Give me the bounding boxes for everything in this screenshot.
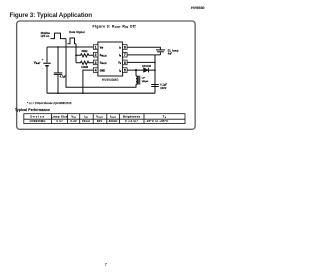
svg-text:GND: GND	[100, 69, 106, 72]
svg-text:+: +	[42, 58, 44, 62]
svg-text:Figure 3: ROUT RIN Off: Figure 3: ROUT RIN Off	[93, 25, 137, 30]
svg-text:L1*: L1*	[142, 78, 146, 80]
dim pulse waveform symbol	[51, 33, 67, 39]
capacitor C1 input	[57, 47, 59, 73]
svg-text:7: 7	[104, 262, 107, 268]
svg-text:2: 2	[95, 53, 97, 57]
pin 4	[93, 68, 98, 73]
junction node pin6 bus	[154, 62, 156, 64]
svg-text:HV9930MG: HV9930MG	[30, 119, 46, 123]
svg-text:80V: 80V	[97, 119, 103, 123]
capacitor C2 output	[154, 84, 156, 86]
svg-text:-20°C to +85°C: -20°C to +85°C	[146, 119, 169, 123]
data signal pulse waveform symbol	[68, 38, 77, 44]
svg-text:1: 1	[95, 45, 97, 49]
svg-text:Lamp Size: Lamp Size	[51, 115, 68, 119]
svg-text:VOUT: VOUT	[96, 115, 103, 119]
svg-text:Brightness: Brightness	[123, 115, 141, 119]
svg-text:HV9930MG: HV9930MG	[102, 78, 119, 82]
wire data signal drop	[75, 44, 77, 63]
svg-text:VBAT: VBAT	[34, 60, 41, 64]
battery B1	[46, 47, 48, 63]
svg-text:LPF on: LPF on	[41, 35, 50, 38]
wire dim drop to inductor bottom	[66, 39, 136, 88]
svg-text:Device: Device	[30, 115, 45, 119]
IC U1 HV9930MG body	[98, 42, 123, 76]
pin 8	[123, 45, 128, 50]
svg-text:7: 7	[124, 53, 126, 57]
svg-text:Data Signal: Data Signal	[69, 31, 85, 34]
svg-text:fOUT: fOUT	[110, 115, 117, 119]
svg-text:VIN: VIN	[71, 115, 76, 119]
svg-text:100V: 100V	[160, 87, 166, 90]
junction node pin4 ground	[82, 92, 84, 94]
wire VIN rail	[47, 46, 94, 48]
wire pin7 to EL lamp bottom	[127, 54, 160, 56]
inductor L1	[135, 70, 137, 76]
table data row	[30, 119, 169, 123]
svg-text:4nF: 4nF	[168, 52, 173, 55]
pin 3	[93, 60, 98, 65]
junction node pin5-L1	[135, 69, 137, 71]
svg-text:1N4148: 1N4148	[142, 65, 151, 68]
svg-text:TA: TA	[163, 115, 167, 119]
svg-text:8: 8	[124, 45, 126, 49]
wire pin8 to EL lamp top	[127, 47, 160, 49]
svg-text:0.1µF: 0.1µF	[160, 84, 167, 87]
pin 1	[93, 45, 98, 50]
svg-text:150µH: 150µH	[142, 81, 149, 83]
pin 6	[123, 60, 128, 65]
junction node diode bus	[154, 69, 156, 71]
table header row	[30, 115, 166, 119]
svg-text:4.99M: 4.99M	[81, 66, 88, 69]
resistor R1	[76, 54, 94, 57]
svg-text:HV9930: HV9930	[191, 6, 205, 10]
svg-text:6: 6	[124, 61, 126, 65]
svg-text:4: 4	[95, 69, 97, 73]
diode D1	[144, 68, 149, 73]
svg-text:4.7µF: 4.7µF	[60, 75, 67, 78]
wire pin5 diode row	[127, 69, 155, 71]
svg-text:* L1 = 150µH Murata LQH43MN151: * L1 = 150µH Murata LQH43MN151K	[27, 101, 72, 105]
svg-text:IIN: IIN	[84, 115, 88, 119]
junction node C1 bottom ground	[57, 92, 59, 94]
pin 7	[123, 52, 128, 57]
pin 5	[123, 68, 128, 73]
svg-text:3: 3	[95, 61, 97, 65]
svg-text:5: 5	[124, 69, 126, 73]
svg-text:Figure 3: Typical Application: Figure 3: Typical Application	[10, 12, 93, 19]
svg-text:2.4V: 2.4V	[70, 119, 77, 123]
svg-text:−: −	[42, 66, 44, 70]
wire pin4 GND	[83, 70, 94, 93]
svg-text:30kΩ: 30kΩ	[82, 50, 88, 53]
figure outer border box	[17, 21, 196, 129]
table grid	[24, 114, 185, 124]
svg-text:4 in²: 4 in²	[56, 119, 63, 123]
wire right bus vertical	[154, 55, 156, 93]
svg-text:Typical Performance: Typical Performance	[15, 108, 50, 112]
svg-text:20mA: 20mA	[82, 119, 90, 123]
resistor R2	[76, 61, 94, 64]
wire pin6	[127, 61, 155, 63]
pin 2	[93, 52, 98, 57]
junction node R1 feed	[75, 54, 77, 56]
svg-text:400Hz: 400Hz	[109, 119, 118, 123]
junction node C1 top	[57, 46, 59, 48]
svg-text:4 cd/m²: 4 cd/m²	[125, 119, 139, 123]
capacitor EL lamp load	[156, 49, 165, 51]
ground rail	[47, 92, 155, 94]
